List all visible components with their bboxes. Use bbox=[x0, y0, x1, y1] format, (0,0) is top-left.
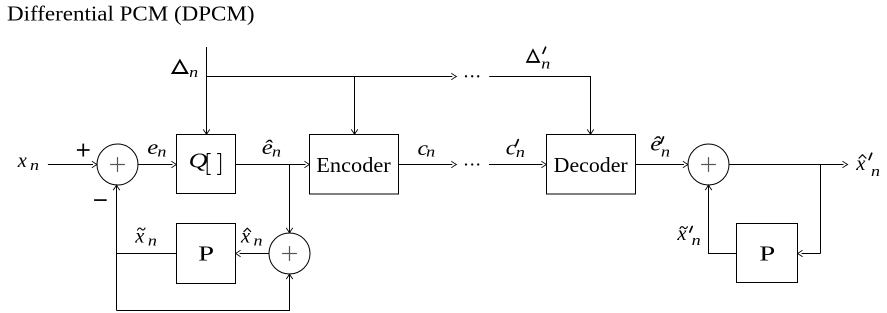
svg-text:n: n bbox=[30, 158, 39, 174]
svg-text:n: n bbox=[692, 233, 701, 249]
svg-text:n: n bbox=[661, 144, 670, 160]
wire up into S3 bottom bbox=[286, 274, 293, 311]
wire e-hat from Q to Encoder bbox=[236, 161, 310, 168]
label e_n bbox=[147, 137, 166, 161]
arrowhead delta rail bbox=[451, 73, 456, 80]
svg-text:Q: Q bbox=[189, 148, 209, 172]
box Decoder bbox=[547, 135, 636, 195]
svg-text:x: x bbox=[134, 226, 144, 248]
box Encoder bbox=[310, 135, 399, 195]
wire bottom feedback horizontal bbox=[117, 310, 291, 312]
minus sign at S1 lower input bbox=[94, 199, 107, 201]
wire delta-prime horizontal then down into Decoder bbox=[489, 77, 594, 135]
summing node S1 bbox=[97, 144, 138, 185]
label Delta_n bbox=[171, 59, 198, 82]
label x-hat'_n output bbox=[855, 153, 880, 180]
wire left feedback vertical up into S1 bottom bbox=[113, 185, 120, 310]
label x-tilde'_n bbox=[676, 223, 700, 249]
svg-text:n: n bbox=[541, 56, 550, 72]
svg-text:n: n bbox=[254, 234, 263, 250]
box Q quantizer bbox=[177, 135, 236, 194]
dots on delta rail bbox=[465, 75, 480, 77]
label x-tilde_n bbox=[134, 226, 157, 250]
svg-text:Decoder: Decoder bbox=[554, 153, 628, 177]
label x_n input bbox=[17, 150, 39, 174]
svg-text:n: n bbox=[148, 234, 157, 250]
wire branch e-hat down into summer S3 bbox=[286, 165, 293, 234]
svg-text:n: n bbox=[426, 144, 435, 160]
label x-hat_n bbox=[240, 226, 263, 250]
wire e_n from S1 to Q bbox=[138, 161, 177, 168]
wire S3 to P1 (x-hat_n) bbox=[236, 250, 270, 257]
svg-text:c: c bbox=[506, 138, 517, 160]
label e-hat'_n bbox=[650, 134, 670, 161]
svg-text:n: n bbox=[871, 164, 880, 180]
svg-text:P: P bbox=[759, 241, 775, 265]
wire delta vertical into Q1 bbox=[203, 47, 210, 135]
wire branch down into Encoder top bbox=[351, 77, 358, 135]
svg-text:n: n bbox=[516, 145, 525, 161]
wire P2 out leftward bbox=[708, 253, 737, 255]
wire up into S2 bottom bbox=[705, 185, 712, 254]
wire delta horizontal rail bbox=[207, 76, 453, 78]
svg-text:n: n bbox=[189, 65, 198, 81]
wire c_n out of Encoder bbox=[399, 161, 457, 168]
svg-text:Differential PCM (DPCM): Differential PCM (DPCM) bbox=[7, 2, 255, 26]
svg-text:P: P bbox=[198, 241, 214, 265]
summing node S2 bbox=[688, 144, 729, 185]
label c_n bbox=[418, 138, 436, 160]
label e-hat_n bbox=[262, 137, 281, 161]
box P1 predictor left bbox=[177, 224, 236, 284]
wire into P2 right side bbox=[798, 250, 821, 257]
wire P1 out to left vertical (x-tilde_n) bbox=[116, 253, 177, 255]
box P2 predictor right bbox=[737, 224, 798, 283]
svg-text:Encoder: Encoder bbox=[316, 153, 391, 177]
wire decoder output into summer S2 bbox=[636, 161, 689, 168]
svg-text:x: x bbox=[17, 150, 27, 172]
dots on channel rail bbox=[465, 163, 480, 165]
label Delta'_n bbox=[526, 47, 551, 72]
summing node S3 bbox=[269, 233, 310, 274]
plus sign at S1 input bbox=[77, 144, 90, 157]
label c'_n bbox=[506, 138, 525, 162]
wire output x-hat'_n bbox=[729, 161, 848, 168]
wire x_n into summer S1 bbox=[48, 161, 97, 168]
svg-text:n: n bbox=[157, 145, 166, 161]
wire c'_n into Decoder bbox=[489, 161, 547, 168]
wire output branch down to P2 bbox=[820, 165, 822, 254]
svg-text:n: n bbox=[272, 145, 281, 161]
